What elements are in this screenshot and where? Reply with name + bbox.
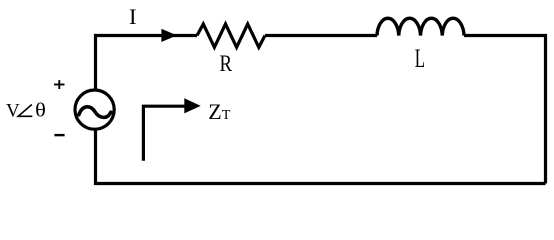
ac source V1: sine wave — [79, 107, 111, 118]
current arrow I — [162, 30, 175, 41]
wire: left vertical (source top to top rail) — [96, 36, 198, 91]
svg-text:I: I — [129, 4, 137, 29]
polarity plus — [54, 80, 64, 89]
svg-text:R: R — [220, 50, 233, 77]
impedance arrow ZT — [143, 98, 200, 161]
wire: bottom rail — [96, 130, 546, 184]
svg-text:L: L — [415, 43, 425, 73]
svg-text:T: T — [222, 108, 231, 123]
ac source V1: circle — [75, 90, 114, 129]
svg-text:Z: Z — [208, 99, 221, 124]
svg-text:V: V — [6, 101, 20, 122]
svg-text:θ: θ — [35, 99, 46, 122]
resistor R — [197, 24, 265, 47]
wire: resistor to inductor — [265, 34, 377, 37]
inductor L — [377, 18, 464, 35]
polarity minus — [54, 134, 64, 136]
angle symbol — [18, 105, 32, 117]
wire: inductor to top-right corner and right vertical — [464, 36, 546, 184]
